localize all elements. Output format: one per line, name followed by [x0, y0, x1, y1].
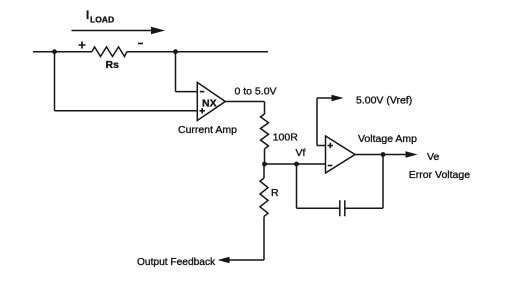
wire: output drop to 100R	[264, 102, 266, 115]
svg-text:Output Feedback: Output Feedback	[137, 257, 216, 268]
wire: ILOAD arrow stem	[72, 30, 154, 32]
wire: Vref to voltage amp + input	[317, 145, 326, 147]
node B: right sense junction	[173, 49, 178, 54]
svg-text:R: R	[271, 187, 279, 199]
wire: current amp + input horizontal	[55, 110, 198, 112]
node: feedback tap junction	[294, 162, 299, 167]
op-amp U1 plus input mark	[200, 108, 205, 113]
arrowhead: ILOAD current arrow	[151, 27, 165, 35]
op-amp U2 minus input mark	[328, 165, 333, 167]
wire: Vref vertical	[316, 98, 318, 146]
wire: R top lead	[263, 164, 265, 178]
wire: Vf horizontal to voltage amp - input	[265, 163, 326, 165]
wire: feedback drop from Vf node	[296, 164, 298, 208]
wire: current amp - input horizontal	[176, 91, 198, 93]
wire: voltage amp output	[355, 154, 406, 156]
resistor R	[260, 178, 268, 216]
arrowhead: output feedback arrow (points left)	[218, 257, 230, 264]
op-amp U2 voltage amp triangle	[326, 136, 356, 173]
svg-text:NX: NX	[202, 98, 217, 110]
wire: R bottom lead down	[263, 216, 265, 260]
wire: 100R bottom lead to Vf node	[264, 149, 266, 164]
arrowhead: Ve output arrow	[406, 151, 418, 158]
resistor Rs	[92, 47, 127, 57]
op-amp U1 minus input mark	[200, 91, 205, 93]
op-amp U1 current amp triangle	[197, 82, 225, 120]
wire: Vref arrow stem	[317, 97, 333, 99]
svg-text:I: I	[86, 10, 89, 22]
svg-text:LOAD: LOAD	[90, 15, 114, 25]
capacitor C1	[340, 200, 345, 216]
arrowhead: Vref arrow	[332, 95, 344, 102]
svg-text:0 to 5.0V: 0 to 5.0V	[235, 86, 277, 98]
svg-text:Voltage Amp: Voltage Amp	[358, 133, 417, 145]
wire: capacitor right plate to riser	[345, 207, 383, 209]
svg-text:Current Amp: Current Amp	[178, 124, 237, 136]
svg-text:5.00V (Vref): 5.00V (Vref)	[356, 95, 412, 107]
wire: current amp output	[225, 101, 264, 103]
wire: output feedback horizontal	[228, 259, 264, 261]
wire: top sense line	[33, 51, 268, 53]
svg-text:Vf: Vf	[296, 147, 306, 159]
polarity + above Rs	[79, 42, 86, 49]
wire: right vertical from sense line	[175, 52, 177, 92]
wire: feedback riser to output	[382, 155, 384, 209]
op-amp U2 plus input mark	[328, 143, 333, 148]
node A: left sense junction	[52, 49, 57, 54]
svg-text:Error Voltage: Error Voltage	[409, 169, 470, 181]
wire: left vertical to current amp + input	[54, 52, 56, 111]
resistor 100R	[261, 114, 269, 149]
svg-text:Ve: Ve	[427, 151, 439, 163]
node: output feedback junction	[381, 152, 386, 157]
node Vf: 100R/R junction	[262, 162, 267, 167]
svg-text:Rs: Rs	[106, 59, 120, 71]
polarity - above Rs	[138, 43, 143, 45]
wire: feedback to capacitor left plate	[297, 207, 340, 209]
svg-text:100R: 100R	[273, 132, 299, 144]
